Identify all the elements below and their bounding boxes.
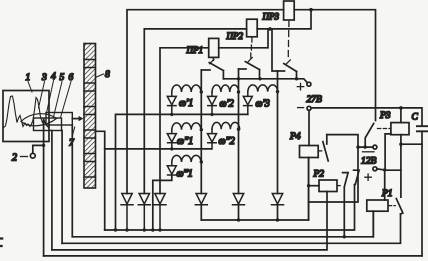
svg-text:Р3: Р3 xyxy=(379,111,391,121)
bottom bus B4 xyxy=(52,192,327,250)
row3 return wire xyxy=(151,175,172,231)
relay coil P1 xyxy=(367,189,393,211)
diode VD-w'3 xyxy=(243,92,252,115)
diode VD-w''2 xyxy=(208,129,217,149)
row2 return bus xyxy=(105,148,212,150)
svg-text:ω′1: ω′1 xyxy=(179,98,193,109)
switch SW3 feed xyxy=(272,29,278,71)
label 3 xyxy=(39,73,48,108)
wire bar step to B1 xyxy=(96,131,105,230)
label 4 xyxy=(47,72,57,113)
fuse-relay PR2 xyxy=(226,19,258,41)
switch SW1 xyxy=(201,63,223,79)
brush wire d xyxy=(71,125,73,237)
cell2 vertical xyxy=(237,69,240,222)
relay coil P3 xyxy=(379,111,409,135)
svg-text:Р4: Р4 xyxy=(289,132,301,142)
relay coil P4 xyxy=(289,132,318,158)
diode VD-L1 xyxy=(121,194,133,232)
wire plus12 to P1 contact xyxy=(385,170,401,197)
wire P3 top xyxy=(400,108,402,123)
diode VD-L2 xyxy=(138,194,150,232)
diode VD-w'1 xyxy=(167,92,176,116)
P1 linkage xyxy=(389,205,396,207)
row1 return bus xyxy=(114,114,248,231)
svg-text:27В: 27В xyxy=(307,95,323,105)
relay coil P2 xyxy=(309,170,337,192)
coil w''1 xyxy=(172,123,202,147)
bottom bus B5 xyxy=(44,255,422,257)
svg-text:С: С xyxy=(412,113,419,123)
P3 linkage xyxy=(378,128,390,130)
svg-text:ω′3: ω′3 xyxy=(256,99,270,110)
contact P2-b xyxy=(354,170,360,184)
label 6 xyxy=(61,73,74,118)
coil w'3 xyxy=(248,85,278,110)
supply line L3 xyxy=(160,29,268,194)
minus 27V rail xyxy=(311,106,422,126)
wire P3 right to cap xyxy=(399,135,422,171)
fuse-relay PR1 xyxy=(186,38,219,57)
label 5 xyxy=(54,73,65,117)
scan smudge xyxy=(0,239,2,247)
coil w''2 xyxy=(212,122,240,147)
wire P1 coil to B2 xyxy=(372,211,374,237)
wire P3 left to plus12 xyxy=(385,134,391,170)
diode VD-L3 xyxy=(154,194,166,232)
label 27V xyxy=(307,95,323,105)
svg-text:ω″2: ω″2 xyxy=(219,136,235,147)
contact P2-a xyxy=(343,173,349,239)
svg-text:8: 8 xyxy=(105,70,110,80)
capacitor C xyxy=(412,113,428,145)
cell3 vertical xyxy=(276,71,279,222)
PR3 linkage xyxy=(286,22,290,65)
svg-text:ω‴1: ω‴1 xyxy=(177,169,193,180)
coil w'2 xyxy=(212,85,239,110)
minus terminal xyxy=(298,106,311,110)
brush wire c xyxy=(61,131,63,244)
wire plus12 to P1 coil xyxy=(384,170,386,200)
terminal 2 xyxy=(12,144,45,164)
PR1 linkage xyxy=(210,57,214,63)
switch SW3 xyxy=(278,64,297,79)
plus terminal xyxy=(297,82,311,90)
label 1 xyxy=(26,73,33,92)
wire minus to P4 xyxy=(308,110,310,145)
wire cap to B5 xyxy=(421,144,423,256)
frame 6 xyxy=(34,118,62,131)
svg-text:Р2: Р2 xyxy=(313,170,325,180)
diode VD-w'2 xyxy=(208,92,217,116)
cell1 vertical xyxy=(200,70,203,220)
arrow into bar xyxy=(72,116,83,121)
diode VD-w'''1 xyxy=(167,162,176,175)
svg-text:ω″1: ω″1 xyxy=(177,136,193,147)
coil w'1 xyxy=(172,85,202,109)
coil w'''1 xyxy=(172,155,202,179)
plus bus 27V xyxy=(223,77,307,83)
supply line L1 xyxy=(127,8,376,194)
label 8 xyxy=(97,70,111,80)
label 7 xyxy=(69,127,75,149)
diode VD-C2 xyxy=(233,194,245,205)
wire P4 to B0 xyxy=(307,158,310,221)
svg-text:12В: 12В xyxy=(361,157,377,167)
svg-text:ПР1: ПР1 xyxy=(186,45,204,55)
diode VD-C1 xyxy=(195,194,207,205)
contact P4 xyxy=(319,135,329,161)
bottom bus B1 xyxy=(105,185,355,230)
PR2 linkage xyxy=(248,38,252,62)
commutator bar 8 xyxy=(84,44,96,189)
wire 12V upper branch xyxy=(309,135,373,202)
diode VD-w''1 xyxy=(167,130,176,151)
svg-text:ω′2: ω′2 xyxy=(220,99,234,110)
stylus lens 3 xyxy=(21,114,57,126)
relay P3 fixed contact on L1 xyxy=(364,123,374,148)
bottom bus B3 xyxy=(62,214,400,243)
contact P1 arm xyxy=(396,199,403,214)
frame 5 xyxy=(46,113,72,126)
supply line L2 xyxy=(144,10,311,194)
bottom bus B2 xyxy=(72,211,373,237)
battery 12V terminals xyxy=(361,145,386,180)
svg-text:ПР2: ПР2 xyxy=(226,31,244,41)
svg-text:2: 2 xyxy=(12,153,17,164)
brush wire a xyxy=(43,119,45,256)
P2 linkage xyxy=(338,185,342,187)
transducer box 1 xyxy=(3,91,49,142)
brush wire b xyxy=(51,131,53,250)
bottom bus B0 xyxy=(201,158,308,221)
svg-text:ПР3: ПР3 xyxy=(262,12,280,22)
recorded waveform trace xyxy=(3,96,49,128)
switch SW2 xyxy=(239,62,260,79)
diode VD-C3 xyxy=(272,194,284,205)
fuse-relay PR3 xyxy=(262,1,295,22)
svg-text:Р1: Р1 xyxy=(381,189,393,199)
